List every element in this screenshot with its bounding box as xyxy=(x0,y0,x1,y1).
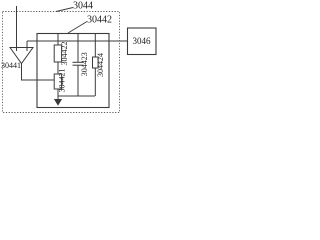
svg-text:304422: 304422 xyxy=(60,42,69,66)
svg-text:304421: 304421 xyxy=(58,69,67,93)
svg-text:30441: 30441 xyxy=(1,61,21,70)
svg-text:3046: 3046 xyxy=(133,36,152,46)
svg-text:304423: 304423 xyxy=(80,52,89,76)
svg-text:304424: 304424 xyxy=(96,53,105,77)
svg-text:3044: 3044 xyxy=(73,1,93,12)
svg-text:30442: 30442 xyxy=(87,15,112,26)
